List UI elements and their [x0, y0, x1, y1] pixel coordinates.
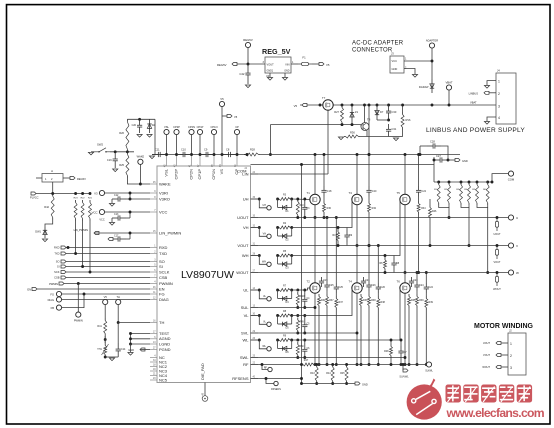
wire T8 emitter to bus	[366, 131, 368, 137]
svg-text:CP1P: CP1P	[197, 169, 202, 180]
wire REG5V terminal down	[247, 48, 249, 64]
resistor R46	[429, 205, 432, 220]
svg-text:2: 2	[498, 92, 500, 96]
wire RV6 top to rail	[402, 105, 404, 112]
svg-text:R48: R48	[384, 350, 389, 353]
transistor T5 high side	[400, 194, 410, 204]
wire snubber2 top to phase	[335, 218, 337, 284]
diode D5	[278, 322, 292, 326]
junction C3 top	[303, 198, 306, 201]
svg-text:R27: R27	[334, 110, 339, 114]
svg-text:SCLK: SCLK	[159, 269, 170, 274]
wire main VBAT rail	[300, 104, 496, 106]
svg-text:V: V	[516, 244, 518, 248]
ground th cluster	[109, 358, 114, 361]
junction th bottom	[104, 356, 107, 359]
junction C5 bottom	[303, 332, 306, 335]
svg-text:R45: R45	[340, 372, 345, 375]
wire WH row from IC	[251, 255, 260, 257]
svg-text:C27: C27	[436, 154, 441, 158]
wire R4 top	[337, 228, 339, 230]
terminal UL	[267, 297, 271, 301]
fuse FU3 WOUT	[495, 273, 498, 287]
wire UL to T2 gate	[292, 288, 311, 290]
wire SO to IC	[66, 261, 150, 263]
pin stub CP1N	[213, 155, 215, 167]
svg-text:DW1: DW1	[35, 230, 41, 234]
junction CP1N bus	[213, 153, 216, 156]
terminal REG5V top	[245, 42, 250, 47]
capacitor C7	[398, 346, 403, 358]
resistor R10 UH pulldown	[296, 199, 299, 218]
junction TH row	[117, 321, 120, 324]
terminal WAKE	[138, 159, 143, 164]
svg-text:CP1N: CP1N	[211, 169, 216, 180]
junction riser rail top	[368, 104, 371, 107]
svg-text:PWMIN: PWMIN	[74, 319, 83, 323]
wire T3 source to phase	[356, 205, 358, 246]
wire R4 bottom	[337, 243, 339, 246]
svg-text:C42: C42	[239, 72, 245, 76]
diode D1	[278, 205, 292, 209]
junction T7 drain	[319, 104, 322, 107]
junction R40b top	[296, 289, 299, 292]
terminal V5 small	[227, 115, 232, 118]
junction rail RV6	[401, 104, 404, 107]
capacitor C26 snubber	[366, 281, 371, 291]
wire WL row from IC	[251, 339, 260, 341]
svg-text:CP2P: CP2P	[174, 169, 179, 180]
junction C5 top	[303, 314, 306, 317]
wire R46 top	[429, 199, 431, 205]
transistor T2 low side	[310, 283, 320, 293]
wire U3 out to fuse	[291, 63, 298, 65]
wire T1 source to phase	[314, 205, 316, 218]
svg-text:SWL: SWL	[240, 355, 249, 360]
junction R40b bottom	[296, 306, 299, 309]
capacitor C16	[113, 152, 118, 168]
ground C20	[137, 135, 142, 138]
wire WL term drop	[259, 340, 266, 349]
resistor R5	[278, 254, 292, 257]
pin stub UH	[251, 198, 259, 200]
wire CP1N terminal down	[213, 135, 215, 155]
svg-text:VS: VS	[219, 169, 224, 175]
terminal RF rail end	[426, 362, 431, 367]
svg-text:R36: R36	[350, 131, 355, 135]
junction diode rail	[431, 104, 434, 107]
wire J4 pin1 to ground	[487, 81, 496, 85]
junction C16 top	[114, 150, 117, 153]
svg-text:V5: V5	[234, 115, 238, 119]
junction VH res right	[290, 226, 293, 229]
capacitor C20u	[137, 119, 142, 133]
terminal V5 top	[219, 101, 224, 106]
svg-text:R38: R38	[371, 299, 376, 302]
svg-text:V3: V3	[94, 192, 98, 196]
wire VL term drop	[259, 316, 266, 325]
junction R46 VOUT	[429, 244, 432, 247]
svg-text:C11: C11	[155, 148, 160, 152]
ground C13	[109, 223, 114, 226]
terminal W	[508, 270, 513, 275]
wire LIN to T7 gate handled above	[327, 173, 329, 175]
terminal VBAT	[446, 85, 451, 90]
svg-text:2: 2	[510, 354, 512, 358]
resistor R47	[302, 363, 316, 366]
svg-text:CSB: CSB	[159, 275, 168, 280]
resistor R21	[89, 200, 92, 221]
junction R22 SI	[81, 265, 84, 268]
svg-text:SI: SI	[159, 264, 163, 269]
capacitor C30	[386, 105, 391, 119]
svg-text:VL: VL	[244, 313, 250, 318]
wire snubber mid	[368, 291, 370, 294]
svg-text:VCC: VCC	[392, 59, 398, 63]
wire RF rail	[315, 364, 426, 366]
junction UOUT fuse	[496, 216, 499, 219]
junction V3 node	[129, 192, 132, 195]
wire C5 top stub	[304, 316, 306, 319]
terminal CSB	[61, 276, 66, 279]
junction gnd rail col	[300, 382, 303, 385]
terminal RFSENS circle	[274, 381, 278, 385]
junction adapter node	[431, 60, 434, 63]
wire snubber top to phase	[416, 273, 418, 282]
svg-text:TH: TH	[159, 320, 164, 325]
svg-text:PLVCC: PLVCC	[30, 196, 39, 200]
wire WL to T6 gate	[292, 288, 401, 340]
svg-text:CP: CP	[235, 125, 239, 129]
junction R31 RF rail	[318, 363, 321, 366]
wire C12 left down	[111, 199, 113, 203]
junction C6 top	[303, 339, 306, 342]
junction R4 VOUT	[337, 244, 340, 247]
wire CP2P terminal down	[176, 135, 178, 155]
wire T3 drain from VS rail	[356, 155, 358, 195]
wire A box down	[52, 182, 54, 194]
junction R50 bottom	[296, 356, 299, 359]
pin stub UL	[251, 289, 259, 291]
svg-text:VSL: VSL	[164, 125, 169, 129]
junction C4 bottom	[303, 306, 306, 309]
capacitor C27	[434, 157, 448, 162]
svg-text:C25: C25	[329, 284, 334, 287]
wire R34 to phase	[418, 215, 420, 273]
svg-text:PWMIN: PWMIN	[159, 281, 173, 286]
wire VOUT row	[251, 245, 509, 247]
resistor R23	[74, 200, 77, 221]
terminal SCK	[61, 271, 66, 274]
svg-text:3: 3	[510, 366, 512, 370]
capacitor C17	[112, 236, 126, 241]
wire C13 right join	[126, 217, 130, 219]
junction WL res right	[290, 339, 293, 342]
junction C7 WL row	[400, 339, 403, 342]
wire snubber2 bottom to RF rail	[377, 310, 379, 365]
junction R26 bottom	[126, 150, 129, 153]
svg-text:V5: V5	[104, 295, 108, 299]
wire RXD to IC	[66, 247, 150, 249]
svg-text:R39: R39	[429, 301, 434, 304]
svg-text:DADAP: DADAP	[419, 85, 429, 89]
ground D2	[147, 135, 152, 138]
svg-text:CONNECTOR: CONNECTOR	[352, 48, 393, 54]
wire bootstrap C20 riser	[368, 155, 370, 187]
terminal PWMIN	[59, 282, 64, 285]
wire divider pair W	[477, 205, 488, 272]
pin stub CP2P	[176, 155, 178, 167]
svg-text:UOUT: UOUT	[237, 215, 249, 220]
svg-text:T2: T2	[307, 280, 311, 284]
terminal WH	[267, 262, 271, 266]
junction AGND	[129, 337, 132, 340]
svg-text:LINBUS AND POWER SUPPLY: LINBUS AND POWER SUPPLY	[426, 127, 525, 134]
wire VL diode loop right	[291, 316, 293, 325]
junction VH stub a	[258, 226, 261, 229]
wire WAKE term down	[139, 164, 141, 184]
diode D7	[375, 105, 379, 120]
resistor R37b snubber2	[335, 296, 338, 310]
svg-text:VH: VH	[263, 232, 267, 235]
capacitor D9	[344, 230, 349, 242]
wire GND rail bottom	[302, 383, 356, 385]
terminal CP2N top	[189, 129, 194, 134]
wire divider R54 bottom	[468, 205, 470, 207]
junction UH stub a	[258, 198, 261, 201]
pin stub FG	[150, 293, 157, 295]
diode D4	[278, 296, 292, 300]
svg-text:C26: C26	[381, 286, 386, 289]
terminal GND com	[455, 159, 460, 162]
wire D7 C30 bottom join	[377, 119, 389, 121]
wire T4 source down	[356, 293, 358, 364]
wire RV6 bottom	[402, 130, 404, 137]
capacitor C20	[366, 186, 371, 197]
svg-text:CP2P: CP2P	[173, 125, 180, 129]
junction divider R55	[476, 181, 479, 184]
junction phase node T1	[314, 216, 317, 219]
terminal RXD	[61, 246, 66, 249]
wire pullup col R23 down	[75, 221, 77, 254]
capacitor C28	[427, 143, 441, 148]
wire R41 mid tap	[104, 336, 106, 343]
wire COM riser	[433, 157, 435, 165]
wire A pin left stub	[36, 177, 42, 179]
svg-text:F1: F1	[302, 56, 306, 60]
terminal TH top	[116, 299, 121, 304]
wire SWL row	[251, 357, 406, 359]
wire C20 to R32	[368, 197, 370, 202]
ground below C42	[245, 85, 250, 88]
pin stub CP2N	[191, 155, 193, 167]
svg-text:R34: R34	[421, 207, 426, 210]
svg-text:C22: C22	[421, 190, 426, 193]
junction REG5V node	[247, 63, 250, 66]
svg-text:R39: R39	[419, 299, 424, 302]
svg-text:C12: C12	[114, 194, 119, 197]
pin stub NC5	[150, 379, 157, 381]
junction divider R53	[460, 181, 463, 184]
junction C6 bottom	[303, 356, 306, 359]
junction LGND	[129, 343, 132, 346]
junction SVL source col	[356, 332, 359, 335]
junction UL stub a	[258, 289, 261, 292]
svg-text:TH1: TH1	[97, 348, 102, 351]
wire J4 pin4 to ground	[487, 117, 496, 121]
regulator U3 box	[265, 57, 291, 73]
terminal VOUT motor	[496, 354, 501, 357]
wire snubber bottom to RF rail	[326, 308, 328, 365]
junction R22 top	[81, 192, 84, 195]
junction phase node T5	[404, 271, 407, 274]
junction com c27	[433, 159, 436, 162]
pin stub TH	[150, 322, 157, 324]
svg-text:R44: R44	[326, 372, 331, 375]
svg-text:C31: C31	[392, 127, 397, 131]
junction FB FG	[83, 293, 86, 296]
ground J4 pin4	[484, 122, 489, 125]
junction snubber phase	[368, 244, 371, 247]
wire CP1P terminal down	[199, 135, 201, 155]
junction VS rail riser	[368, 153, 371, 156]
wire VS riser from VBAT rail	[368, 105, 370, 155]
pin stub NC2	[150, 366, 157, 368]
wire VH diode loop left	[277, 228, 279, 237]
svg-text:T4: T4	[349, 280, 353, 284]
svg-text:LV8907UW: LV8907UW	[181, 269, 234, 281]
svg-text:C28: C28	[430, 140, 435, 144]
pin stub RFSENS	[251, 378, 259, 380]
terminal CP1N top	[211, 129, 216, 134]
svg-text:C21: C21	[365, 279, 370, 282]
junction VS bus	[221, 153, 224, 156]
wire UH diode loop right	[291, 199, 293, 208]
transistor T8	[361, 123, 369, 131]
resistor R22	[81, 200, 84, 221]
wire R30 to phase	[323, 215, 325, 218]
pin stub UOUT	[251, 217, 259, 219]
wire TH down	[117, 305, 119, 323]
resistor R49 pulldown	[296, 318, 299, 334]
wire R28 to VS rail riser	[260, 154, 369, 156]
wire snubber2 top to phase	[425, 273, 427, 284]
junction VL stub a	[258, 314, 261, 317]
capacitor C25 snubber	[324, 281, 329, 291]
resistor R42	[51, 194, 54, 221]
pin stub SWL	[251, 357, 259, 359]
svg-text:MOTOR WINDING: MOTOR WINDING	[474, 323, 534, 330]
svg-text:VBAT: VBAT	[445, 81, 452, 85]
junction rail C20	[368, 153, 371, 156]
wire CP terminal down	[236, 135, 238, 155]
terminal WOUT motor	[496, 366, 501, 369]
wire snubber mid	[416, 291, 418, 294]
junction VS rail T1	[314, 153, 317, 156]
ground C12	[109, 204, 114, 207]
svg-text:SUL: SUL	[241, 305, 250, 310]
svg-text:C17: C17	[114, 235, 119, 238]
transistor T6 low side	[400, 283, 410, 293]
capacitor C12	[112, 196, 126, 201]
wire WH to T5 gate	[292, 200, 401, 256]
svg-text:VH: VH	[243, 225, 249, 230]
transistor T4 low side	[352, 283, 362, 293]
svg-text:AC-DC ADAPTER: AC-DC ADAPTER	[352, 41, 404, 47]
junction T2 source RF rail	[314, 363, 317, 366]
junction snubber2 phase	[335, 216, 338, 219]
svg-text:RXD: RXD	[54, 246, 60, 250]
die pad target symbol	[202, 396, 208, 402]
junction WH res left	[276, 254, 279, 257]
capacitor C5 pulldown	[302, 319, 307, 334]
svg-text:VOUT: VOUT	[267, 63, 275, 67]
svg-text:PWMIN: PWMIN	[49, 282, 58, 286]
svg-text:SW2: SW2	[97, 143, 104, 147]
terminal VCC	[99, 209, 104, 214]
resistor R9	[278, 339, 292, 342]
junction R44 bottom	[331, 382, 334, 385]
capacitor C42	[245, 64, 250, 84]
svg-text:GND: GND	[128, 348, 134, 352]
svg-text:SU/VWL: SU/VWL	[399, 376, 409, 379]
junction WL stub a	[258, 339, 261, 342]
wire snubber2 top to phase	[377, 246, 379, 284]
wire UL row from IC	[251, 289, 260, 291]
junction C20 top	[138, 118, 141, 121]
wire UL diode loop left	[277, 290, 279, 299]
resistor R25	[126, 152, 129, 178]
wire R25 down to WAKE row	[127, 178, 150, 184]
svg-text:NC5: NC5	[159, 377, 168, 382]
svg-text:R28: R28	[250, 148, 255, 152]
wire LGND row	[131, 343, 151, 345]
junction C27 C28	[447, 159, 450, 162]
wire snubber bottom to RF rail	[416, 308, 418, 365]
junction R45 bottom	[345, 382, 348, 385]
resistor R45 shunt	[345, 365, 348, 384]
wire COM col down	[433, 165, 435, 183]
pin stub NC1	[150, 361, 157, 363]
junction C3 bottom	[303, 216, 306, 219]
junction R6 WOUT	[384, 271, 387, 274]
svg-text:TXD: TXD	[159, 251, 167, 256]
terminal GND C17	[108, 238, 113, 241]
resistor R39b snubber2	[425, 296, 428, 310]
capacitor C11	[152, 152, 167, 157]
svg-text:R50: R50	[300, 346, 305, 348]
wire J3 pin1 to adapter node	[404, 60, 432, 62]
ground DW1	[42, 239, 47, 242]
transistor T7	[323, 100, 333, 110]
svg-text:GND: GND	[362, 383, 368, 387]
svg-text:CP2N: CP2N	[189, 169, 194, 180]
junction R45 top	[345, 363, 348, 366]
capacitor D8	[391, 258, 396, 270]
svg-text:WAKE: WAKE	[159, 181, 171, 186]
wire RFSENS circle drop	[266, 379, 274, 384]
wire SCK to IC	[66, 271, 150, 273]
wire UL diode loop right	[291, 290, 293, 299]
pin stub SO	[150, 261, 157, 263]
svg-text:UH: UH	[263, 204, 267, 207]
wire VH term drop	[259, 228, 266, 237]
svg-text:WAKE: WAKE	[137, 155, 145, 159]
svg-text:C20: C20	[132, 124, 137, 127]
svg-text:C9: C9	[204, 148, 208, 152]
wire C17 to LIN wire	[129, 233, 131, 239]
wire divider top rail	[434, 181, 492, 183]
